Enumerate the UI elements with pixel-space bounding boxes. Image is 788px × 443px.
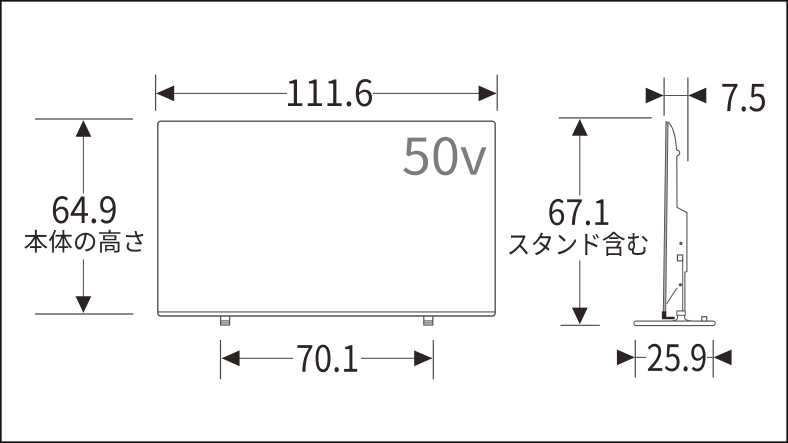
side panel knob bump: [677, 150, 680, 156]
stand base square: [702, 317, 707, 321]
dim 25.9 left stub: [635, 356, 646, 358]
dim 111.6 right tick: [496, 75, 498, 111]
label 64.9: [53, 196, 116, 224]
label hontai no takasa: [24, 230, 143, 253]
label 70.1: [297, 345, 357, 373]
dim 64.9 up arrow: [76, 120, 92, 137]
dim 70.1 left arrow: [222, 350, 240, 366]
dim 67.1 down arrow: [572, 308, 588, 325]
stand base: [634, 321, 715, 326]
dim 70.1 line right: [361, 357, 432, 359]
tv front outline: [158, 121, 495, 316]
dim 7.5 mid line: [664, 95, 688, 97]
dim 25.9 left arrow: [617, 350, 635, 366]
dim 111.6 right arrow: [479, 86, 497, 102]
dim 64.9 line upper: [82, 121, 84, 194]
dim 25.9 left tick: [634, 340, 636, 378]
dim 25.9 right tick: [712, 340, 714, 378]
label 7.5: [722, 84, 765, 112]
dim 111.6 line right: [373, 92, 496, 94]
dim 67.1 top tick: [559, 117, 652, 119]
side screw dot lower: [679, 283, 682, 286]
dim 7.5 left arrow: [646, 88, 664, 104]
dim 64.9 top tick: [35, 118, 133, 120]
tv left foot: [221, 316, 230, 325]
dim 70.1 right arrow: [414, 350, 432, 366]
side bulge bottom line: [677, 310, 685, 312]
tv bezel bottom line: [158, 311, 494, 313]
dim 111.6 left arrow: [156, 86, 174, 102]
dim 111.6 left tick: [155, 75, 157, 111]
dim 67.1 bottom tick: [561, 324, 600, 326]
dim 25.9 right stub: [707, 356, 713, 358]
dim 111.6 line left: [157, 92, 287, 94]
label stand fukumu: [509, 232, 648, 256]
dim 70.1 left tick: [220, 340, 222, 379]
label 50v: [403, 137, 486, 175]
label 111.6: [288, 79, 372, 107]
side panel back top curve: [668, 122, 677, 150]
stand neck diagonal: [667, 288, 678, 304]
dim 64.9 line lower: [82, 260, 84, 313]
dim 7.5 right tick: [687, 78, 689, 162]
dim 70.1 right tick: [432, 340, 434, 379]
dim 70.1 line left: [222, 357, 293, 359]
label 25.9: [648, 344, 706, 372]
stand neck left flare: [671, 315, 678, 321]
dim 64.9 down arrow: [76, 296, 92, 313]
dim 7.5 left tick: [663, 78, 665, 116]
dim 67.1 line upper: [579, 120, 581, 196]
side panel back edge: [677, 156, 687, 311]
tv right foot: [424, 316, 433, 325]
stand neck right flare: [685, 315, 694, 321]
side screw dot upper: [679, 242, 682, 245]
side connector square: [677, 255, 682, 261]
dim 7.5 right arrow: [688, 88, 706, 104]
side bulge inner line: [682, 261, 684, 311]
dim 67.1 line lower: [579, 261, 581, 324]
dim 25.9 right arrow: [714, 350, 732, 366]
dim 64.9 bottom tick: [35, 313, 133, 315]
side front foot: [662, 311, 675, 319]
stand bracket: [677, 311, 685, 315]
label 67.1: [549, 199, 608, 226]
dim 67.1 up arrow: [572, 119, 588, 136]
side panel sliver: [663, 122, 668, 313]
